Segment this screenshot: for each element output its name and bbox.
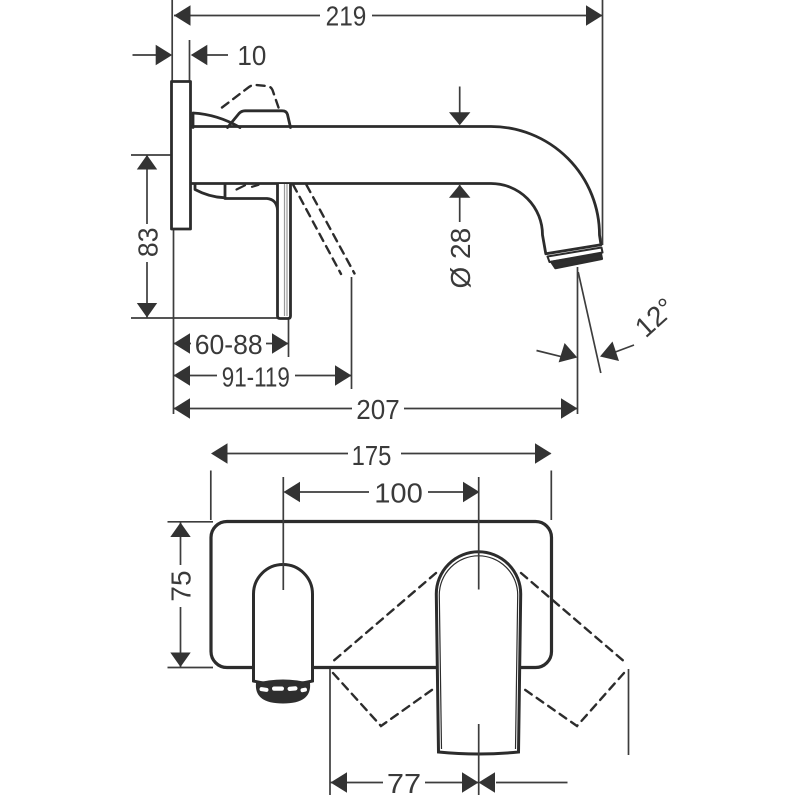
svg-text:10: 10 <box>237 40 266 71</box>
svg-text:83: 83 <box>132 228 164 258</box>
svg-text:219: 219 <box>326 0 367 32</box>
svg-text:60-88: 60-88 <box>195 328 263 360</box>
svg-text:Ø 28: Ø 28 <box>445 228 476 289</box>
svg-text:91-119: 91-119 <box>222 362 290 393</box>
svg-text:100: 100 <box>374 478 423 509</box>
svg-text:75: 75 <box>166 570 197 601</box>
svg-text:175: 175 <box>352 439 392 471</box>
svg-text:207: 207 <box>356 394 399 425</box>
svg-text:77: 77 <box>387 768 421 799</box>
